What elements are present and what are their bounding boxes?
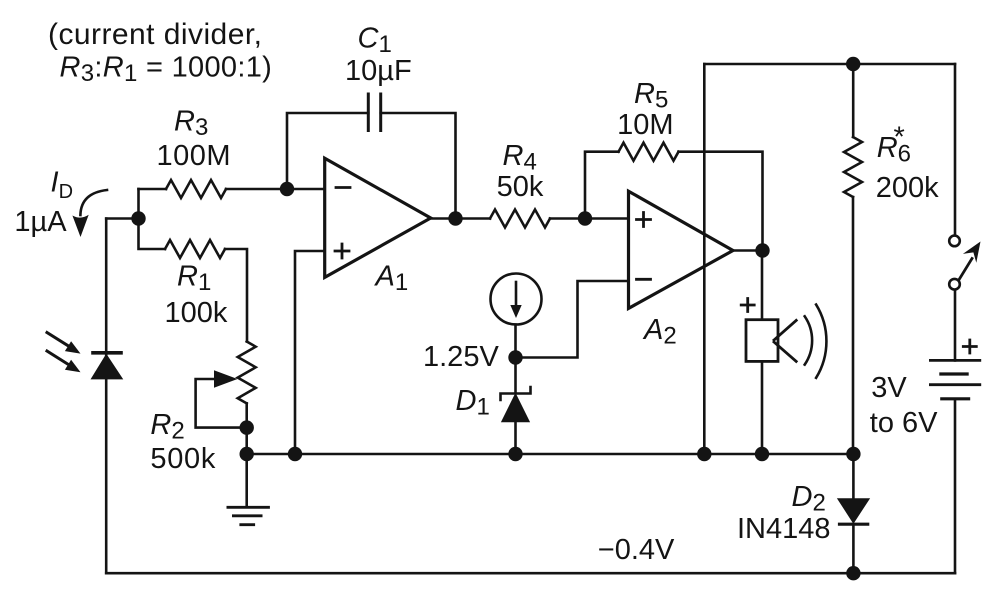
svg-text:1µA: 1µA — [14, 206, 67, 238]
photodiode light arrow 2 — [47, 351, 69, 365]
wire C1 feedback loop left side — [287, 113, 368, 189]
wire R6 branch from top rail node — [852, 64, 855, 137]
junction node R6/D2 on mid rail — [846, 447, 860, 461]
op-amp A2 — [629, 191, 734, 308]
wire R5 branch up from node C — [585, 152, 619, 219]
wire A2 output to node D — [733, 249, 763, 252]
current ID curved arrow — [80, 190, 107, 215]
svg-text:10µF: 10µF — [345, 55, 412, 87]
junction node D1 on mid rail — [508, 447, 522, 461]
wire mid rail node down to diode D2 — [852, 454, 855, 499]
resistor R1 — [165, 240, 225, 258]
svg-text:IN4148: IN4148 — [737, 513, 831, 545]
wire A1 non-inverting input down to mid rail — [295, 251, 325, 454]
wire bottom rail — [106, 572, 955, 575]
svg-text:R1: R1 — [177, 261, 211, 297]
diode D2 triangle — [839, 499, 869, 522]
wire A2 inverting input branch — [516, 281, 629, 358]
svg-text:R3: R3 — [174, 106, 208, 142]
battery plus sign — [963, 340, 976, 353]
wire D1 anode to mid rail — [514, 421, 517, 454]
svg-text:3V: 3V — [871, 372, 907, 404]
speaker plus sign — [741, 299, 754, 312]
current source 1.25V reference circle — [491, 274, 542, 325]
current source arrow — [515, 282, 518, 306]
wire node E down to zener D1 — [514, 358, 517, 393]
svg-text:50k: 50k — [497, 171, 544, 203]
svg-text:C1: C1 — [358, 23, 392, 59]
wire D2 cathode to bottom rail — [852, 524, 855, 573]
wire C1 right side down to A1 output node — [381, 113, 456, 219]
diode D2 cathode bar — [840, 523, 868, 526]
wire vertical drop from top rail to mid rail (crosses A2) — [703, 64, 706, 454]
svg-text:−0.4V: −0.4V — [598, 534, 675, 566]
wire mid rail — [247, 453, 854, 456]
switch S1 lower contact — [949, 279, 960, 290]
op-amp A2 minus sign — [637, 278, 651, 281]
speaker sound waves — [805, 305, 827, 378]
wire right vertical (battery bottom to bottom rail corner) — [954, 399, 957, 573]
ground symbol — [245, 454, 248, 507]
zener diode D1 cathode bar — [501, 387, 531, 400]
capacitor C1 plates — [368, 94, 380, 131]
speaker cone — [774, 320, 796, 361]
wire wiper node down to mid rail — [245, 428, 248, 454]
junction node R6 on top rail — [846, 57, 860, 71]
photodiode D3 cathode bar — [93, 351, 121, 355]
op-amp A1 — [325, 158, 431, 277]
svg-text:100M: 100M — [157, 140, 232, 172]
op-amp A1 minus sign — [336, 186, 350, 189]
resistor R5 — [619, 143, 679, 161]
zener diode D1 anode triangle — [503, 395, 529, 421]
op-amp A2 plus sign — [637, 213, 651, 227]
wire current source to node E — [514, 325, 517, 358]
wire node B to A1 inverting input — [287, 188, 325, 191]
junction node top-rail drop on mid rail — [697, 447, 711, 461]
junction node A — [131, 211, 145, 225]
wire right vertical (switch lower contact to battery top) — [954, 290, 957, 361]
svg-text:(current divider,: (current divider, — [48, 18, 262, 51]
wire R3 row left — [139, 188, 167, 191]
wire node A up to R3 row — [137, 189, 140, 219]
svg-text:500k: 500k — [150, 443, 216, 475]
svg-text:1.25V: 1.25V — [423, 341, 499, 373]
wire R6 bottom to mid rail — [852, 197, 855, 454]
junction node C (A2 non-inverting input) — [578, 211, 592, 225]
svg-text:*: * — [894, 122, 905, 154]
wire right vertical (top rail corner down to switch top contact) — [954, 64, 957, 235]
wire speaker bottom to mid rail — [761, 361, 764, 454]
svg-text:A2: A2 — [642, 314, 677, 350]
photodiode D3 anode triangle — [92, 356, 121, 379]
svg-text:100k: 100k — [165, 297, 228, 329]
svg-text:to 6V: to 6V — [870, 407, 938, 439]
wire node D down to speaker — [761, 251, 764, 320]
wire R1 right end down to R2 top — [225, 249, 247, 342]
svg-text:D2: D2 — [792, 481, 826, 517]
svg-text:R3:R1 = 1000:1): R3:R1 = 1000:1) — [60, 52, 273, 88]
speaker LS1 box — [746, 320, 778, 362]
wire A1 output to R4 — [431, 217, 490, 220]
wire R5 right end down to A2 output node — [679, 152, 763, 251]
wire R2 wiper bracket — [196, 379, 244, 428]
junction node E (1.25V node) — [508, 350, 522, 364]
junction node A1 output — [448, 211, 462, 225]
wire R2 bottom to wiper node — [245, 403, 248, 427]
junction node speaker on mid rail — [755, 447, 769, 461]
svg-text:ID: ID — [51, 167, 74, 203]
wire node A down to R1 row — [139, 219, 166, 250]
svg-text:R2: R2 — [150, 409, 184, 445]
svg-text:10M: 10M — [617, 109, 673, 141]
battery B1 plates — [930, 360, 979, 384]
wire R3 right to node B — [226, 188, 287, 191]
junction node D (A2 output) — [755, 243, 769, 257]
switch S1 lever — [960, 259, 973, 279]
wire top rail — [704, 63, 955, 66]
wire node A to left vertical — [106, 217, 138, 220]
potentiometer R2 wiper arrow head — [214, 370, 238, 387]
svg-text:200k: 200k — [876, 172, 939, 204]
junction node B (A1 inverting input) — [280, 182, 294, 196]
resistor R3 — [166, 180, 226, 198]
photodiode light arrow 1 — [47, 333, 69, 347]
resistor R2 (potentiometer body) — [238, 342, 256, 404]
op-amp A1 plus sign — [335, 244, 349, 258]
resistor R6 — [844, 137, 862, 197]
switch S1 upper contact — [949, 236, 960, 247]
junction node R2 wiper — [240, 420, 254, 434]
junction node D2 on bottom rail — [846, 566, 860, 580]
junction node A1 plus branch on mid rail — [288, 447, 302, 461]
wire left vertical from node A down to bottom rail — [105, 219, 108, 574]
junction node R2 bottom on mid rail — [240, 447, 254, 461]
wire R4 to A2 non-inverting input — [550, 217, 629, 220]
resistor R4 — [490, 210, 550, 228]
svg-text:D1: D1 — [456, 385, 490, 421]
svg-text:A1: A1 — [374, 261, 409, 297]
